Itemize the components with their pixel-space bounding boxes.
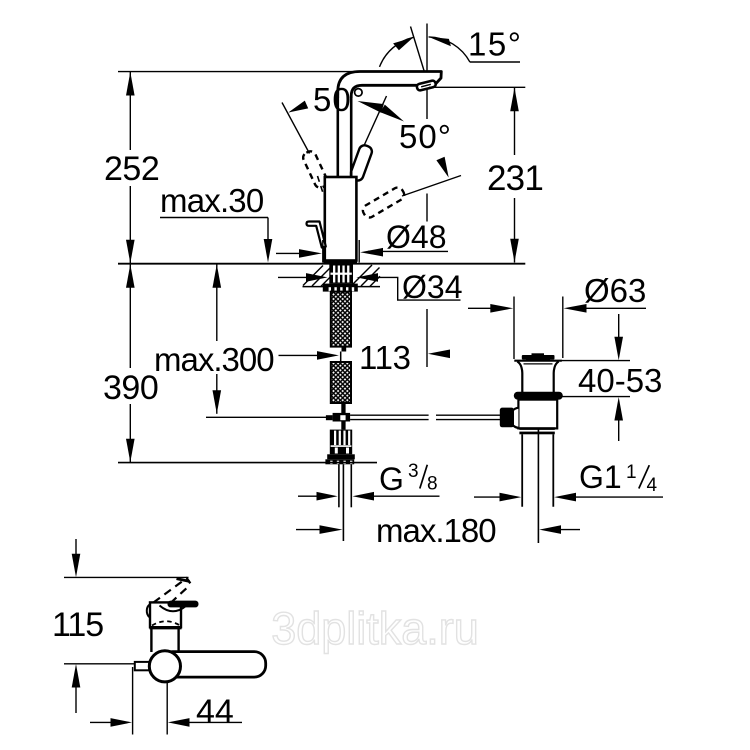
top view spout tip edge [177,579,190,582]
drain flare [514,361,562,392]
svg-text:4: 4 [647,475,658,496]
top view handle nub [135,662,150,670]
top view left bump [147,604,150,617]
dimension diameter 34 [278,269,462,305]
hose link rod [340,352,342,363]
svg-text:max.180: max.180 [376,512,496,549]
dashed lever rotated left [301,150,329,196]
label G1 1/4 [474,459,663,501]
pop-up pull rod lever [307,222,326,248]
dimension max.300 [154,264,326,417]
15-degree arc with arrowheads [380,37,471,67]
dimension 44 [90,667,242,735]
dimension 113 [279,339,451,376]
watermark 3dplitka.ru [271,603,479,654]
supply nut and flange [325,454,354,464]
top view reference line upper [64,576,189,578]
svg-text:max.30: max.30 [160,182,264,219]
svg-text:Ø63: Ø63 [584,272,646,309]
svg-text:max.300: max.300 [154,341,274,378]
top view cartridge dome arc [160,606,187,612]
spout outlet centerline [426,24,428,368]
dimension max.180 [296,512,580,549]
dimension diameter 48 [276,219,448,263]
svg-text:40-53: 40-53 [578,362,662,399]
dimension 252 [104,72,352,264]
svg-text:50°: 50° [399,118,452,155]
lower reference line [118,462,377,464]
dimension diameter 63 [468,272,646,359]
drain tailpipe [522,429,553,543]
top view valve body [150,602,182,628]
solid lever [349,144,374,182]
flexible hose upper [331,292,351,347]
mounting deck surface line [118,263,525,265]
svg-text:231: 231 [487,159,543,198]
drain cap [522,353,555,360]
deck underside line [303,286,381,288]
drain actuator knob [500,408,514,428]
svg-text:Ø34: Ø34 [402,269,462,305]
top view hidden circle dashed [152,621,180,625]
top view spout dashed [154,578,191,604]
svg-text:1: 1 [626,462,637,483]
dimension 115 [52,539,103,713]
drain gasket [514,392,563,400]
rotation arrowhead left [288,101,308,113]
svg-text:115: 115 [52,606,103,644]
dimension 40-53 [561,314,662,441]
svg-text:50°: 50° [313,81,366,118]
threaded shank [329,265,353,284]
mounting nut [323,284,358,292]
top view spout tip [187,578,191,583]
svg-text:15°: 15° [468,26,522,63]
svg-text:Ø48: Ø48 [386,219,446,255]
deck hatching [303,265,380,286]
dimension 231 [429,87,543,262]
svg-text:3: 3 [408,461,419,482]
drain body [510,400,558,429]
aerator [416,80,436,91]
svg-text:G1: G1 [579,459,622,495]
horizontal pop-up rod [350,415,500,419]
lever axis line left [282,103,310,154]
drain collar [519,427,554,434]
svg-text:3dplitka.ru: 3dplitka.ru [271,603,479,654]
top view column [151,628,178,652]
rod clamp [326,413,350,422]
top view lever bar [161,652,266,678]
top view pivot circle [149,651,180,682]
svg-text:390: 390 [103,369,158,407]
15-degree tilt line [411,27,428,83]
flexible hose lower [331,362,351,403]
dimension max.30 [160,182,272,263]
label G 3/8 [298,461,440,501]
svg-text:G: G [379,461,404,497]
dimension 390 [103,264,158,462]
label 15 degrees [468,26,522,63]
vertical pull rod [341,404,345,430]
faucet body [325,177,357,261]
faucet base plate [324,260,358,264]
svg-text:252: 252 [104,150,159,188]
lever axis line right [402,176,461,197]
supply pipe tails [339,464,351,541]
lever axis line center [350,96,387,177]
svg-text:8: 8 [427,474,438,495]
rotation arrowhead right [436,157,448,178]
faucet spout and neck [338,72,442,179]
rotation double arrowhead center [358,101,405,122]
top view lever paddle [168,601,199,608]
svg-text:113: 113 [359,339,411,376]
threaded connector lower [330,430,352,455]
hose stub [342,347,347,352]
svg-text:44: 44 [196,693,234,731]
top view reference line lower [64,663,136,665]
dashed lever rotated right [361,185,406,219]
